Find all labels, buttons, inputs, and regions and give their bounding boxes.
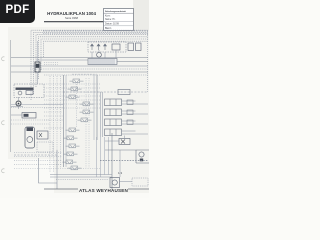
control block left wall inner [65, 75, 67, 167]
relief valve group box (dashed) [88, 42, 126, 52]
bank section 4 [105, 129, 122, 136]
section boundary dashed [63, 91, 148, 93]
bus L6 [44, 41, 149, 57]
brake valve mark [24, 114, 29, 117]
scanned page background [0, 0, 149, 198]
valve X4 [119, 139, 130, 145]
grid line g1 [44, 83, 100, 85]
bus L3 [36, 35, 148, 87]
schematic drawing [0, 0, 149, 198]
spool valve s3 [66, 95, 80, 99]
drain riser 1 [111, 133, 113, 190]
grid line g5 [44, 99, 100, 101]
bus L1 [31, 30, 148, 100]
left feeder line 3 [11, 119, 50, 121]
bank section 1 divider [110, 99, 116, 106]
bank section 1 side [127, 100, 133, 105]
sheet right border [147, 31, 149, 92]
lower frame vertical 2 [56, 150, 58, 189]
relief valve 1 [91, 44, 94, 50]
main pressure line 2 [36, 59, 88, 61]
hand pump [16, 101, 21, 106]
priority valve spool [36, 64, 39, 68]
bottom dotted extra 2 [14, 168, 100, 170]
hand pump stem [11, 97, 23, 109]
brake valve block [22, 113, 36, 119]
control block right wall [93, 75, 95, 140]
wire to fan [105, 149, 136, 151]
bus L2 [34, 32, 149, 94]
hole punch 1 [2, 57, 5, 61]
hole punch 2 [2, 121, 5, 125]
bank section 3 wires [122, 121, 149, 124]
svg-text:Schulungswerkstatt: Schulungswerkstatt [105, 10, 126, 13]
valve bank riser 1 [100, 92, 102, 137]
fan motor mark [140, 159, 143, 162]
spool valve s6 [78, 118, 92, 122]
junction box [118, 90, 130, 95]
steering unit bar [16, 88, 34, 90]
line under cooler [44, 74, 148, 76]
main return line 3 [11, 71, 148, 73]
steering unit box (dashed) [14, 84, 44, 98]
charge valve [37, 131, 48, 139]
grid vertical v3 [56, 76, 58, 168]
grid vertical v2 [53, 76, 55, 172]
bus L5 [41, 39, 148, 70]
spool valve s12 [68, 166, 82, 170]
left feeder line 1 [11, 104, 63, 106]
pump circle [97, 52, 102, 57]
priority valve (dark) [35, 62, 40, 72]
info box bottom row [104, 25, 134, 27]
mid short rows [44, 63, 58, 65]
steering unit valve [26, 91, 33, 95]
grid line g7 [44, 107, 100, 109]
wire brake left [11, 114, 22, 116]
control block left wall [63, 75, 65, 167]
valve X4 cross [121, 140, 125, 144]
charge valve arrows [39, 133, 42, 137]
drop wire d2 [100, 137, 102, 177]
svg-text:Datum: 02.99: Datum: 02.99 [105, 23, 120, 26]
mid grid extra 1 [44, 115, 63, 117]
bank section 1 wires [122, 101, 149, 104]
steering unit circle [18, 91, 22, 95]
drop wire d4 [108, 137, 110, 175]
drain riser 2 [119, 150, 121, 177]
svg-text:Name: Hr.: Name: Hr. [105, 18, 116, 21]
left feeder line 2 [11, 107, 63, 109]
svg-text:Blatt 1: Blatt 1 [105, 27, 112, 30]
drop wire d3 [104, 137, 106, 175]
relief valve 3 [104, 44, 107, 50]
spool valve s1 [70, 79, 84, 83]
svg-text:Kurs:: Kurs: [105, 14, 111, 17]
spool valve s11 [63, 160, 77, 164]
info box row rule 2 [104, 21, 134, 23]
pilot box lower (dashed) [37, 142, 53, 152]
spool chain wire [76, 84, 78, 128]
left feeder line 4 [11, 123, 50, 125]
title block rule [44, 21, 104, 23]
cooler fins [90, 59, 114, 65]
valve bank riser 2 [102, 92, 104, 137]
spool valve s2 [68, 87, 82, 91]
svg-text:1 3: 1 3 [118, 171, 123, 175]
suction box (dashed) [132, 178, 148, 186]
spool valve s7 [66, 128, 80, 132]
bottom lines left [14, 152, 62, 154]
block label row [72, 73, 97, 75]
return header line 2 [50, 176, 112, 178]
info box row rule 1 [104, 12, 134, 14]
bottom lines left 2 [14, 156, 62, 158]
wire suction [120, 181, 133, 183]
paper tint [8, 27, 149, 193]
accumulator gauge [27, 137, 33, 143]
grid line g8 [44, 111, 62, 113]
wire X4 up [124, 136, 126, 139]
hole punch 3 [2, 169, 5, 173]
cooler body [88, 59, 117, 65]
footer rule right [128, 188, 149, 190]
lower frame vertical 1 [39, 158, 58, 183]
accumulator cap [27, 128, 34, 132]
sheet left border [10, 40, 12, 152]
bank section 3 [105, 119, 122, 126]
filter circle [112, 180, 117, 185]
svg-text:ATLAS WEYHAUSEN: ATLAS WEYHAUSEN [79, 188, 129, 193]
bank section 2 divider [110, 109, 116, 116]
aux valve A [128, 43, 134, 51]
lower frame dashed [14, 154, 58, 156]
info box border [104, 9, 134, 31]
wire X4 left [105, 140, 119, 142]
wire cooler out [117, 61, 148, 63]
spool valve s9 [66, 144, 80, 148]
grid line g4 [44, 95, 100, 97]
wire drops from valve group [92, 50, 116, 58]
filter box [110, 178, 120, 188]
center dotted pair a [85, 78, 87, 168]
return header line 3 [56, 179, 108, 181]
fan motor circle [139, 152, 144, 157]
bus L4 [39, 37, 149, 79]
svg-text:HYDRAULIKPLAN 1004: HYDRAULIKPLAN 1004 [47, 11, 96, 16]
grid vertical v4 [60, 76, 62, 168]
grid line g3 [44, 91, 100, 93]
bank section 2 wires [122, 111, 149, 114]
mid grid extra 3 [44, 127, 63, 129]
return header line 1 [50, 174, 112, 176]
bank section 1 [105, 99, 122, 106]
main return line 1 [11, 65, 148, 67]
top port-number row 1 [43, 30, 148, 32]
bank section 4 divider [110, 129, 116, 136]
accumulator body [25, 127, 35, 148]
bank section 3 divider [110, 119, 116, 126]
right box wall [136, 150, 149, 163]
grid line g6 [44, 103, 100, 105]
bank section 2 side [127, 110, 133, 115]
PDF badge [0, 0, 35, 23]
control block right wall outer [96, 75, 98, 140]
aux valve B [136, 43, 142, 51]
bottom dotted extra [14, 164, 62, 166]
spool valve s8 [64, 136, 78, 140]
bottom lines left 3 [14, 160, 62, 162]
pilot valve [112, 44, 120, 50]
mid grid extra 2 [44, 119, 63, 121]
PDF badge text [0, 4, 35, 16]
main pressure line 1 [11, 57, 148, 59]
footer rule left [44, 188, 78, 190]
grid vertical v1 [49, 76, 51, 172]
tank dashed line [100, 160, 148, 162]
bank section 3 side [127, 120, 133, 125]
spool valve s10 [64, 152, 78, 156]
spool valve s4 [80, 102, 94, 106]
svg-text:Serie 0368: Serie 0368 [65, 16, 79, 20]
spool valve s5 [80, 110, 94, 114]
relief valve 2 [97, 44, 100, 50]
drop wire d1 [96, 137, 98, 177]
wire priority drop [37, 72, 39, 85]
main return line 2 [30, 68, 148, 70]
top port-number row 2 [43, 32, 148, 34]
grid line g2 [44, 87, 100, 89]
bank section 4 wires [122, 131, 149, 134]
center dotted pair b [88, 78, 90, 168]
bank section 2 [105, 109, 122, 116]
